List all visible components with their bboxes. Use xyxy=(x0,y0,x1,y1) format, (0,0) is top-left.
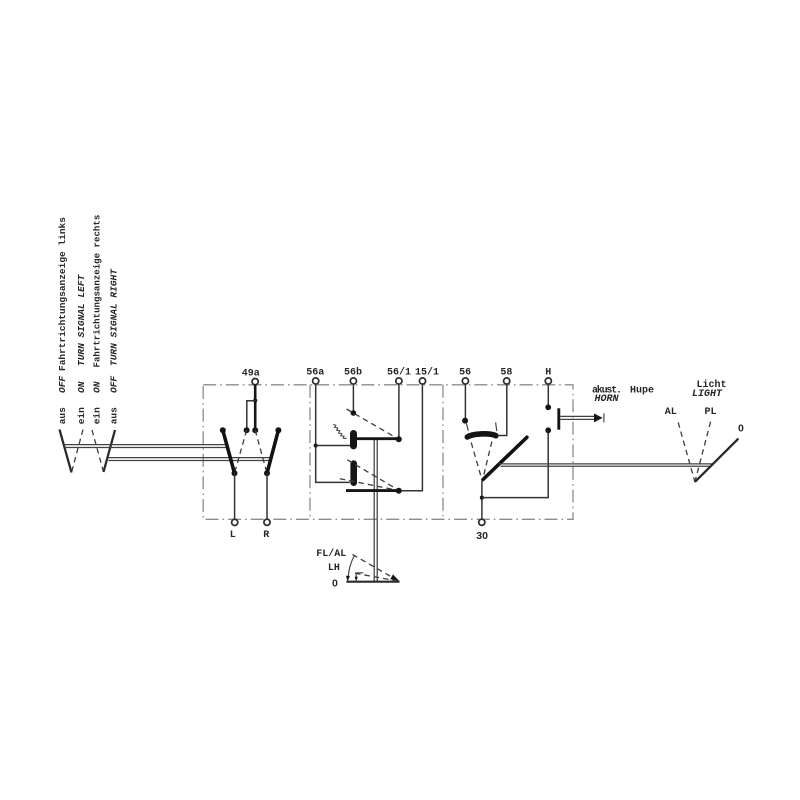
terminal 56a xyxy=(306,367,324,384)
svg-text:HORN: HORN xyxy=(595,394,620,405)
dashed alternate path A to 15/1 node xyxy=(347,460,397,490)
contact shoe right tail xyxy=(496,423,497,432)
mechanical link to light lever (double horizontal) xyxy=(499,464,712,466)
lower bridge contact (oval) xyxy=(350,460,357,486)
terminal 49a xyxy=(242,369,260,385)
svg-text:0: 0 xyxy=(332,578,338,590)
wire junction to horn contact xyxy=(482,430,548,497)
pivot dot L xyxy=(232,470,238,476)
wire 56a tap to upper contact xyxy=(316,445,351,447)
LH position small mark with arrow xyxy=(355,573,364,582)
svg-text:LIGHT: LIGHT xyxy=(692,389,723,400)
horn push stop tick xyxy=(603,413,605,422)
contact dot outer-right xyxy=(275,427,281,433)
terminal L xyxy=(230,519,238,540)
dimmer lever dashed position LH xyxy=(355,573,395,580)
node 56a upper tap xyxy=(314,443,318,447)
horn push rod (double line) xyxy=(560,416,594,419)
svg-text:ON: ON xyxy=(92,381,103,393)
wire H drop xyxy=(547,385,549,408)
svg-text:56b: 56b xyxy=(344,366,362,378)
label column 4: aus OFF TURN SIGNAL RIGHT xyxy=(109,268,120,425)
svg-text:aus: aus xyxy=(109,407,120,424)
terminal 56/1 xyxy=(387,366,411,384)
label column 2: ein ON TURN SIGNAL LEFT xyxy=(76,273,87,424)
svg-text:15/1: 15/1 xyxy=(415,366,439,378)
mechanical link lower (right lever to right switch) xyxy=(108,458,271,461)
turn switch right alternate position (dashed) xyxy=(255,430,267,473)
svg-text:Fahrtrichtungsanzeige rechts: Fahrtrichtungsanzeige rechts xyxy=(92,215,103,368)
terminal 30 xyxy=(476,519,488,542)
light lever dashed position AL xyxy=(678,422,695,482)
turn switch left alternate position (dashed) xyxy=(235,430,247,473)
svg-text:PL: PL xyxy=(705,407,717,418)
svg-text:Fahrtrichtungsanzeige links: Fahrtrichtungsanzeige links xyxy=(57,217,68,371)
dashed alternate path B to 15/1 node xyxy=(340,479,397,491)
svg-text:ON: ON xyxy=(76,381,87,393)
lever V1 solid arm (aus links position) xyxy=(60,430,72,473)
label column 1: aus OFF Fahrtrichtungsanzeige links xyxy=(57,217,68,425)
contact dot center-left xyxy=(244,427,250,433)
mechanical link upper (left lever to left switch) xyxy=(64,445,229,448)
contact shoe left tail xyxy=(466,423,468,430)
contact dot center-right xyxy=(252,427,258,433)
turn switch right lever (closed, thick) xyxy=(267,430,278,473)
terminal H xyxy=(545,368,551,385)
label akust. Hupe xyxy=(592,385,654,397)
svg-text:30: 30 xyxy=(476,530,488,542)
dimmer lever position 0 (solid) xyxy=(346,581,399,583)
dashed alternate path 56b to 56/1 xyxy=(347,409,399,439)
wire 56b drop xyxy=(352,385,354,413)
light lever dashed position PL xyxy=(695,422,711,482)
svg-text:0: 0 xyxy=(738,423,744,435)
svg-text:56: 56 xyxy=(459,367,471,378)
node junction to H xyxy=(480,496,484,500)
dashed guide right (light switch) xyxy=(482,442,492,482)
light switch lever (thick) xyxy=(483,437,527,479)
wire 15/1 drop and elbow xyxy=(401,385,422,491)
wire 56a rail xyxy=(316,385,350,483)
terminal R xyxy=(263,519,270,541)
terminal 15/1 xyxy=(415,366,439,384)
label column 3: ein ON Fahrtrichtungsanzeige rechts xyxy=(92,215,103,425)
wire pivot R to terminal R xyxy=(266,473,268,519)
svg-text:AL: AL xyxy=(665,407,677,418)
svg-text:49a: 49a xyxy=(242,369,260,380)
lever V1 dashed arm (ein links position) xyxy=(72,430,84,473)
mechanical link rod to dimmer lever (double vertical) xyxy=(374,439,377,582)
arrowhead FL/AL position xyxy=(390,574,399,581)
light lever position 0 (solid) xyxy=(695,439,739,482)
divider left/middle section xyxy=(309,385,311,520)
node 56b xyxy=(351,410,357,416)
svg-text:R: R xyxy=(263,530,269,541)
horn contact lower dot xyxy=(545,427,551,433)
node 56/1 contact xyxy=(396,436,402,442)
pivot dot R xyxy=(264,470,270,476)
svg-text:H: H xyxy=(545,368,551,379)
svg-text:Hupe: Hupe xyxy=(630,386,654,397)
spring zigzag xyxy=(333,424,346,438)
contact dot outer-left xyxy=(220,427,226,433)
lever V2 solid arm (aus rechts position) xyxy=(104,430,116,472)
turn switch left lever (closed, thick) xyxy=(223,430,235,473)
wire 56 drop xyxy=(464,385,466,421)
horn contact upper dot xyxy=(545,404,551,410)
wire 58 drop and elbow xyxy=(497,385,506,436)
terminal 56 xyxy=(459,367,471,384)
node 56 xyxy=(462,418,468,424)
svg-text:TURN SIGNAL LEFT: TURN SIGNAL LEFT xyxy=(76,273,87,366)
svg-text:OFF: OFF xyxy=(57,376,68,393)
terminal 56b xyxy=(344,366,362,384)
upper contact bar 56a-56/1 (closed) xyxy=(352,437,399,440)
lever V2 dashed arm (ein rechts position) xyxy=(92,430,104,472)
switch housing dash-dot box xyxy=(203,385,573,520)
svg-text:aus: aus xyxy=(57,407,68,424)
wire 49a branch to left contact xyxy=(247,401,255,431)
svg-text:56a: 56a xyxy=(306,367,324,378)
svg-text:OFF: OFF xyxy=(109,376,120,393)
svg-text:ein: ein xyxy=(76,407,87,424)
svg-text:LH: LH xyxy=(328,563,340,574)
terminal 58 xyxy=(500,367,512,384)
horn push arrowhead xyxy=(594,413,603,422)
upper bridge contact (oval) xyxy=(350,430,357,449)
node 15/1 contact xyxy=(396,488,402,494)
swing arc with arrow xyxy=(346,555,355,581)
svg-text:TURN SIGNAL RIGHT: TURN SIGNAL RIGHT xyxy=(109,268,120,366)
dimmer lever dashed position FL/AL xyxy=(353,555,391,577)
svg-text:ein: ein xyxy=(92,407,103,424)
wire 49a main drop xyxy=(254,385,257,430)
wire 56/1 drop xyxy=(398,385,400,439)
lower contact bar xyxy=(346,489,400,492)
wire pivot to terminal 30 xyxy=(481,481,483,519)
divider middle/right section xyxy=(442,385,444,520)
svg-text:FL/AL: FL/AL xyxy=(316,548,346,560)
dashed guide left (light switch) xyxy=(471,443,482,482)
svg-text:56/1: 56/1 xyxy=(387,366,411,378)
contact shoe (thick arc) xyxy=(467,434,496,437)
horn push button bar xyxy=(557,408,560,429)
svg-text:58: 58 xyxy=(500,367,512,378)
node 49a branch junction xyxy=(253,399,257,403)
wire pivot L to terminal L xyxy=(234,473,236,519)
svg-text:L: L xyxy=(230,530,236,541)
